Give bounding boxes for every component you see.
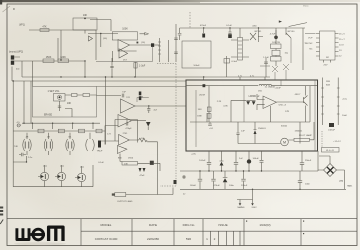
svg-text:NC: NC xyxy=(309,48,313,50)
svg-text:1K50: 1K50 xyxy=(128,158,134,160)
svg-text:470pF: 470pF xyxy=(125,128,132,130)
svg-text:2x 1N4001: 2x 1N4001 xyxy=(265,87,276,89)
svg-text:120K: 120K xyxy=(60,56,66,59)
svg-text:TRK NC: TRK NC xyxy=(304,43,313,45)
svg-text:ISSUE: ISSUE xyxy=(218,223,227,227)
svg-text:13K: 13K xyxy=(124,164,128,166)
svg-text:+10uF: +10uF xyxy=(275,87,282,89)
svg-text:1.3uF: 1.3uF xyxy=(263,57,269,59)
svg-text:5K(1): 5K(1) xyxy=(303,6,309,8)
svg-text:4.3K: 4.3K xyxy=(223,106,228,108)
svg-text:100uF: 100uF xyxy=(253,158,260,160)
svg-text:47K: 47K xyxy=(42,26,47,29)
svg-text:4.7uF: 4.7uF xyxy=(270,33,276,35)
svg-text:5/16 +3: 5/16 +3 xyxy=(279,105,287,107)
svg-text:PILOT LAMP: PILOT LAMP xyxy=(299,134,312,137)
svg-text:47uF: 47uF xyxy=(140,175,146,177)
svg-text:100K: 100K xyxy=(122,28,128,31)
svg-text:4R: 4R xyxy=(26,136,29,138)
svg-text:O.P: O.P xyxy=(18,125,22,127)
svg-text:M: M xyxy=(283,141,286,145)
svg-text:6.3uF: 6.3uF xyxy=(232,61,238,63)
svg-text:220uF: 220uF xyxy=(241,185,248,187)
svg-text:100uF: 100uF xyxy=(190,185,197,187)
svg-text:2.2K: 2.2K xyxy=(217,101,222,103)
svg-text:1K8 2W: 1K8 2W xyxy=(272,42,281,44)
svg-text:(10): (10) xyxy=(141,42,145,44)
svg-text:1: 1 xyxy=(206,237,208,241)
svg-text:10uF: 10uF xyxy=(342,115,348,117)
svg-text:(I/P1): (I/P1) xyxy=(19,23,25,26)
svg-text:0-1uF: 0-1uF xyxy=(226,25,232,27)
svg-text:41.4+11: 41.4+11 xyxy=(326,150,335,152)
svg-text:ERASE: ERASE xyxy=(44,113,53,116)
svg-text:(50): (50) xyxy=(103,38,107,40)
svg-text:MAINS: MAINS xyxy=(238,206,245,209)
svg-text:10K: 10K xyxy=(67,102,72,105)
svg-text:60mA: 60mA xyxy=(281,125,287,128)
svg-text:14 O: 14 O xyxy=(339,45,344,47)
svg-text:1 SET VOL: 1 SET VOL xyxy=(47,90,60,93)
svg-text:15 +T: 15 +T xyxy=(339,39,345,41)
svg-text:25V: 25V xyxy=(324,64,328,66)
svg-text:10K: 10K xyxy=(83,14,88,17)
svg-text:+12+12: +12+12 xyxy=(333,141,341,143)
svg-text:MODEL: MODEL xyxy=(100,223,111,227)
svg-text:150K: 150K xyxy=(46,56,52,59)
svg-text:7uF: 7uF xyxy=(122,91,126,93)
svg-text:4K8 7: 4K8 7 xyxy=(295,94,301,96)
svg-text:LM380 +2: LM380 +2 xyxy=(249,95,260,98)
svg-text:1-3uF: 1-3uF xyxy=(139,65,146,68)
svg-text:(mono) (I/P2): (mono) (I/P2) xyxy=(9,51,23,54)
svg-text:1N4001: 1N4001 xyxy=(295,131,303,133)
svg-text:+10u: +10u xyxy=(342,99,348,101)
svg-text:1uF: 1uF xyxy=(241,131,245,133)
svg-text:0.1uF: 0.1uF xyxy=(98,162,104,164)
svg-text:470uF: 470uF xyxy=(214,185,221,187)
svg-text:BFY50: BFY50 xyxy=(288,31,295,33)
svg-text:2-2u: 2-2u xyxy=(28,157,33,159)
svg-text:BFY51: BFY51 xyxy=(255,31,262,33)
svg-text:COPICAT IC400: COPICAT IC400 xyxy=(95,237,118,241)
svg-text:DRG No: DRG No xyxy=(183,223,195,227)
svg-text:TRuP: TRuP xyxy=(97,150,103,152)
svg-text:0.05uF: 0.05uF xyxy=(328,130,335,132)
svg-text:470uF: 470uF xyxy=(200,25,207,27)
svg-text:22/02/80: 22/02/80 xyxy=(147,237,159,241)
svg-text:1N4001: 1N4001 xyxy=(258,128,266,130)
svg-text:2741: 2741 xyxy=(123,133,129,135)
svg-text:19/4/(R): 19/4/(R) xyxy=(259,223,270,227)
svg-text:430r: 430r xyxy=(252,24,257,27)
svg-text:2: 2 xyxy=(214,237,216,241)
svg-text:TAB1: TAB1 xyxy=(347,184,353,187)
svg-text:240V: 240V xyxy=(251,207,257,209)
svg-text:100n: 100n xyxy=(305,183,311,185)
svg-text:17R: 17R xyxy=(285,111,289,113)
svg-text:100uF: 100uF xyxy=(199,160,206,162)
svg-text:100n: 100n xyxy=(229,185,235,187)
svg-text:4R: 4R xyxy=(47,136,50,138)
svg-text:VCP: VCP xyxy=(308,38,313,40)
svg-text:250uF: 250uF xyxy=(305,160,312,162)
svg-text:25mH: 25mH xyxy=(199,94,205,96)
svg-text:(4B): (4B) xyxy=(339,181,343,183)
svg-text:DATE: DATE xyxy=(149,223,157,227)
svg-text:16 +V: 16 +V xyxy=(339,34,345,36)
svg-text:596: 596 xyxy=(186,237,191,241)
svg-text:100uF: 100uF xyxy=(193,65,200,67)
svg-text:OUTPUT LEAD: OUTPUT LEAD xyxy=(117,200,133,203)
